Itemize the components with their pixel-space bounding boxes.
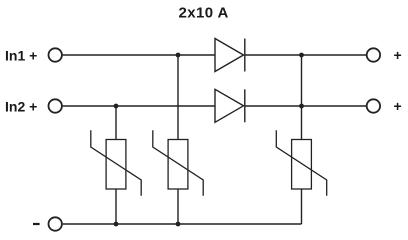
diode D1 bbox=[215, 39, 245, 72]
varistor RV1 bbox=[91, 130, 141, 195]
wire In2 to diode D2 bbox=[63, 105, 215, 107]
svg-text:In1 +: In1 + bbox=[5, 48, 37, 64]
wire output node down to varistor RV3 bbox=[301, 55, 303, 140]
node junction In1/RV2 bbox=[176, 53, 181, 58]
node junction bus/RV1 bbox=[114, 222, 119, 227]
svg-text:2x10 A: 2x10 A bbox=[179, 5, 229, 22]
terminal Out2 circle bbox=[367, 99, 380, 112]
node junction bus/RV2 bbox=[176, 222, 181, 227]
varistor RV3 bbox=[276, 130, 326, 195]
terminal In1 circle bbox=[49, 48, 62, 61]
wire In1 to diode D1 bbox=[63, 54, 215, 56]
wire diode D2 to Out2 bbox=[245, 105, 367, 107]
svg-text:In2 +: In2 + bbox=[5, 98, 37, 114]
wire In2 node down to varistor RV1 bbox=[115, 106, 117, 140]
wire diode D1 to Out1 bbox=[245, 54, 367, 56]
terminal minus circle bbox=[49, 217, 62, 230]
svg-text:+: + bbox=[394, 47, 402, 63]
diode D2 bbox=[215, 89, 245, 122]
node junction In2/RV1 bbox=[114, 104, 119, 109]
node junction Out1/RV3 bbox=[299, 53, 304, 58]
terminal In2 circle bbox=[49, 99, 62, 112]
wire varistor RV2 to bottom bus bbox=[177, 189, 179, 224]
node junction Out2/RV3 bbox=[299, 104, 304, 109]
label: minus at bottom terminal bbox=[33, 223, 40, 225]
wire varistor RV1 to bottom bus bbox=[115, 189, 117, 224]
wire bottom bus bbox=[63, 223, 302, 225]
varistor RV2 bbox=[153, 130, 203, 195]
wire In1 node down to varistor RV2 bbox=[177, 55, 179, 140]
wire varistor RV3 to bottom bus bbox=[301, 189, 303, 224]
terminal Out1 circle bbox=[367, 48, 380, 61]
svg-text:+: + bbox=[394, 98, 402, 114]
